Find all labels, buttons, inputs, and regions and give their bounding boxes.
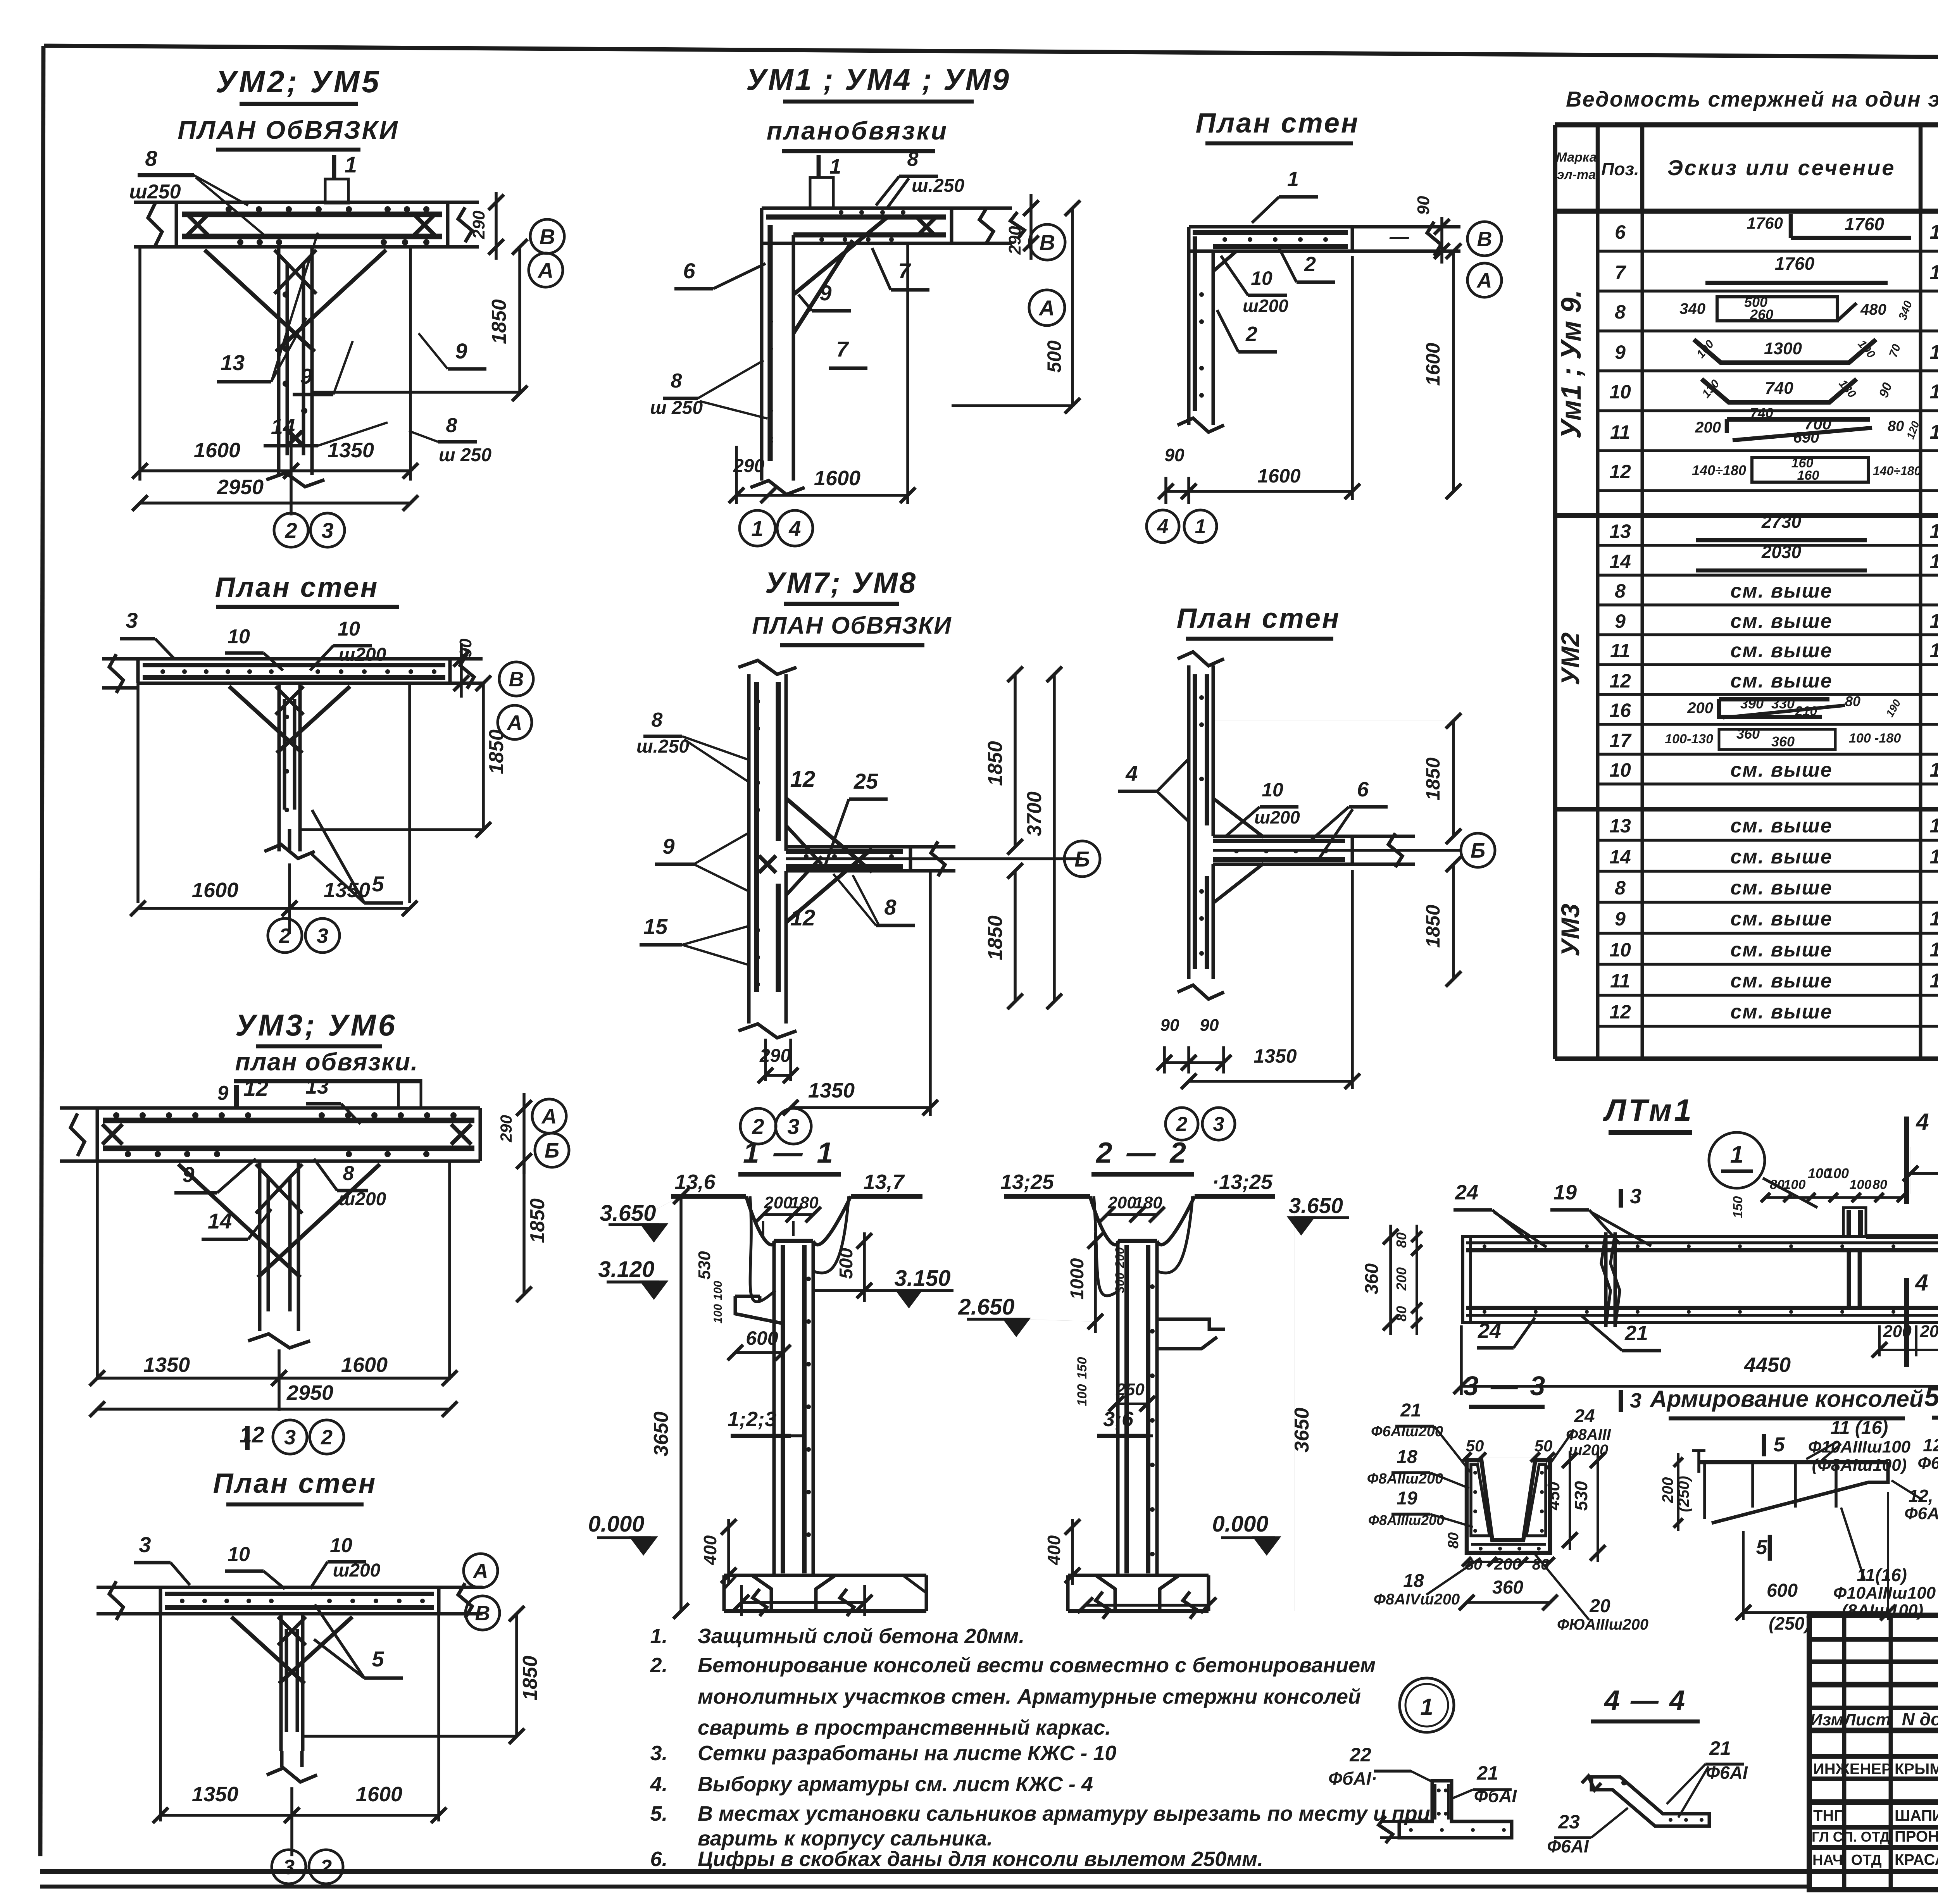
svg-text:200: 200 xyxy=(764,1193,793,1212)
svg-text:10: 10 xyxy=(1609,759,1631,781)
svg-text:21: 21 xyxy=(1476,1762,1498,1784)
svg-text:10: 10 xyxy=(1609,381,1631,403)
svg-text:В: В xyxy=(509,668,524,691)
svg-text:3700: 3700 xyxy=(1023,791,1046,836)
svg-text:200: 200 xyxy=(1659,1477,1676,1504)
svg-text:ш.250: ш.250 xyxy=(912,176,964,196)
svg-text:4: 4 xyxy=(1157,515,1169,538)
svg-text:1600: 1600 xyxy=(356,1783,402,1806)
svg-text:12: 12 xyxy=(240,1422,265,1447)
svg-text:12АIII: 12АIII xyxy=(1930,520,1938,543)
svg-text:план обвязки.: план обвязки. xyxy=(235,1048,418,1076)
svg-text:Ф8АIII: Ф8АIII xyxy=(1566,1426,1611,1443)
svg-text:10: 10 xyxy=(228,625,250,648)
svg-text:Сетки разработаны на листе: Сетки разработаны на листе КЖС - 10 xyxy=(698,1742,1116,1765)
svg-text:12АIII: 12АIII xyxy=(1930,908,1938,930)
svg-text:3.: 3. xyxy=(650,1742,667,1765)
svg-text:ПРОНИК: ПРОНИК xyxy=(1895,1828,1938,1845)
svg-text:100: 100 xyxy=(1850,1177,1872,1192)
svg-text:2: 2 xyxy=(321,1426,333,1449)
svg-text:360: 360 xyxy=(1492,1577,1523,1598)
svg-text:80: 80 xyxy=(1845,693,1860,709)
svg-text:100 -180: 100 -180 xyxy=(1849,731,1901,746)
svg-text:3650: 3650 xyxy=(1291,1408,1313,1453)
svg-text:4: 4 xyxy=(1915,1270,1928,1296)
svg-text:13,6: 13,6 xyxy=(674,1170,716,1194)
svg-text:10АIII: 10АIII xyxy=(1930,759,1938,781)
svg-text:12: 12 xyxy=(1609,461,1631,482)
svg-text:140÷180: 140÷180 xyxy=(1692,462,1746,478)
svg-text:УМ2: УМ2 xyxy=(1556,632,1585,686)
svg-text:90: 90 xyxy=(1160,1016,1179,1035)
svg-text:12 (17): 12 (17) xyxy=(1923,1435,1938,1455)
svg-text:ш200: ш200 xyxy=(1569,1442,1608,1459)
svg-text:1: 1 xyxy=(1287,167,1299,191)
svg-text:250: 250 xyxy=(1116,1380,1145,1399)
svg-text:УМ1 ; УМ4 ; УМ9: УМ1 ; УМ4 ; УМ9 xyxy=(746,62,1010,96)
svg-text:3: 3 xyxy=(284,1426,296,1449)
svg-text:см. выше: см. выше xyxy=(1730,877,1832,899)
svg-text:14: 14 xyxy=(208,1209,232,1233)
svg-text:600: 600 xyxy=(1767,1580,1798,1601)
svg-text:см. выше: см. выше xyxy=(1730,908,1832,930)
svg-text:2: 2 xyxy=(752,1114,764,1139)
svg-text:9: 9 xyxy=(819,281,831,305)
svg-text:см. выше: см. выше xyxy=(1730,939,1832,961)
svg-text:9: 9 xyxy=(662,834,674,858)
svg-text:9: 9 xyxy=(1615,341,1626,363)
svg-text:см. выше: см. выше xyxy=(1730,846,1832,868)
svg-text:480: 480 xyxy=(1860,301,1886,318)
svg-text:1760: 1760 xyxy=(1775,253,1815,274)
svg-text:10: 10 xyxy=(1262,779,1283,801)
svg-text:—: — xyxy=(1389,226,1409,248)
svg-text:80: 80 xyxy=(1888,418,1904,434)
svg-text:6: 6 xyxy=(683,258,695,283)
svg-text:18: 18 xyxy=(1397,1447,1417,1467)
svg-text:1: 1 xyxy=(751,516,763,541)
svg-text:планобвязки: планобвязки xyxy=(767,116,948,145)
svg-text:290: 290 xyxy=(469,210,488,240)
svg-text:18: 18 xyxy=(1403,1571,1424,1591)
svg-text:2: 2 xyxy=(284,518,297,543)
svg-text:10АIII: 10АIII xyxy=(1930,970,1938,992)
svg-text:А: А xyxy=(1038,296,1055,320)
svg-text:3: 3 xyxy=(321,518,333,543)
svg-text:ТНП: ТНП xyxy=(1813,1807,1845,1824)
svg-text:200: 200 xyxy=(1113,1247,1127,1268)
svg-text:12АIII: 12АIII xyxy=(1930,261,1938,284)
svg-text:690: 690 xyxy=(1793,429,1819,446)
svg-text:10: 10 xyxy=(228,1543,250,1566)
svg-text:90: 90 xyxy=(1414,196,1433,215)
svg-text:Ф8АIIш200: Ф8АIIш200 xyxy=(1367,1471,1443,1487)
svg-text:3.150: 3.150 xyxy=(894,1266,950,1291)
svg-text:13,7: 13,7 xyxy=(863,1170,905,1194)
svg-text:1850: 1850 xyxy=(519,1656,541,1701)
svg-text:3: 3 xyxy=(1213,1113,1224,1136)
svg-text:530: 530 xyxy=(1571,1481,1591,1511)
svg-text:см. выше: см. выше xyxy=(1730,970,1832,992)
svg-text:9: 9 xyxy=(455,339,467,363)
svg-text:Бетонирование консолей вести: Бетонирование консолей вести совместно с… xyxy=(698,1654,1376,1677)
svg-text:2.: 2. xyxy=(650,1654,667,1677)
svg-text:360: 360 xyxy=(1771,734,1795,750)
svg-text:12АIII: 12АIII xyxy=(1930,221,1938,243)
svg-text:100: 100 xyxy=(712,1281,724,1300)
svg-text:8: 8 xyxy=(652,709,663,731)
svg-text:Марка: Марка xyxy=(1556,150,1597,165)
svg-text:5: 5 xyxy=(372,1647,384,1671)
svg-text:12: 12 xyxy=(1609,670,1631,692)
svg-text:10: 10 xyxy=(330,1534,352,1557)
svg-text:3: 3 xyxy=(126,608,138,632)
svg-text:ш200: ш200 xyxy=(339,644,386,665)
svg-text:Ф6АIш 200: Ф6АIш 200 xyxy=(1904,1504,1938,1523)
svg-text:21: 21 xyxy=(1624,1322,1648,1345)
svg-text:9: 9 xyxy=(1615,908,1626,930)
svg-text:В: В xyxy=(540,224,555,249)
svg-text:·13;25: ·13;25 xyxy=(1212,1170,1273,1194)
svg-text:2: 2 xyxy=(279,924,291,948)
svg-text:Ф8АIVш200: Ф8АIVш200 xyxy=(1374,1591,1460,1608)
svg-text:1350: 1350 xyxy=(1253,1045,1297,1067)
svg-text:2030: 2030 xyxy=(1761,542,1802,562)
svg-text:2950: 2950 xyxy=(286,1381,333,1404)
svg-text:1: 1 xyxy=(1730,1141,1743,1168)
svg-text:4: 4 xyxy=(788,516,801,541)
svg-text:14: 14 xyxy=(1609,846,1631,868)
svg-text:8: 8 xyxy=(671,370,682,392)
svg-text:3: 3 xyxy=(139,1532,151,1557)
svg-text:90: 90 xyxy=(1200,1016,1219,1035)
svg-text:Ведомость стержней на один эле: Ведомость стержней на один элемент xyxy=(1566,87,1938,111)
svg-text:13: 13 xyxy=(305,1075,329,1098)
svg-text:5.: 5. xyxy=(650,1802,667,1825)
svg-text:1.: 1. xyxy=(650,1625,667,1648)
svg-text:12АIII: 12АIII xyxy=(1930,341,1938,364)
svg-text:10АIII: 10АIII xyxy=(1930,381,1938,403)
svg-text:100-130: 100-130 xyxy=(1665,732,1713,746)
svg-text:80: 80 xyxy=(1770,1177,1785,1192)
svg-text:9: 9 xyxy=(217,1082,229,1104)
svg-text:70: 70 xyxy=(1887,343,1904,359)
svg-text:23: 23 xyxy=(1558,1811,1580,1833)
svg-text:1: 1 xyxy=(829,155,841,178)
svg-text:10АIII: 10АIII xyxy=(1930,939,1938,961)
svg-text:монолитных участков стен. А: монолитных участков стен. Арматурные сте… xyxy=(698,1685,1361,1708)
svg-text:740: 740 xyxy=(1765,379,1793,398)
svg-text:В: В xyxy=(475,1602,490,1625)
svg-text:50: 50 xyxy=(1535,1437,1553,1455)
svg-text:1850: 1850 xyxy=(984,741,1007,786)
svg-text:1850: 1850 xyxy=(1422,905,1444,948)
svg-text:4 — 4: 4 — 4 xyxy=(1604,1685,1686,1716)
svg-text:13: 13 xyxy=(1609,520,1631,542)
svg-text:План стен: План стен xyxy=(1196,108,1360,139)
svg-text:см. выше: см. выше xyxy=(1730,580,1832,602)
svg-text:0.000: 0.000 xyxy=(588,1511,644,1537)
svg-text:5: 5 xyxy=(1774,1434,1785,1456)
svg-text:ИНЖЕНЕР: ИНЖЕНЕР xyxy=(1813,1761,1892,1778)
svg-text:В: В xyxy=(1477,227,1492,251)
svg-text:5: 5 xyxy=(1756,1536,1768,1559)
svg-text:А: А xyxy=(507,711,522,734)
svg-text:12АIII: 12АIII xyxy=(1930,550,1938,573)
svg-text:1600: 1600 xyxy=(192,879,238,902)
svg-text:ш200: ш200 xyxy=(1243,296,1288,316)
svg-text:8: 8 xyxy=(343,1162,354,1185)
svg-text:13;25: 13;25 xyxy=(1000,1170,1054,1194)
svg-text:500: 500 xyxy=(836,1248,857,1279)
svg-text:ПЛАН ОбВЯЗКИ: ПЛАН ОбВЯЗКИ xyxy=(752,612,952,639)
svg-text:ш 250: ш 250 xyxy=(439,445,491,465)
svg-text:сварить в пространственный: сварить в пространственный каркас. xyxy=(698,1716,1111,1739)
svg-text:9: 9 xyxy=(300,364,312,388)
svg-text:360: 360 xyxy=(1736,726,1760,742)
svg-text:80: 80 xyxy=(1393,1306,1409,1322)
svg-text:1350: 1350 xyxy=(328,439,374,462)
svg-text:Ф10АIIIш100: Ф10АIIIш100 xyxy=(1833,1584,1936,1602)
svg-text:80: 80 xyxy=(1872,1177,1887,1192)
svg-text:21: 21 xyxy=(1400,1400,1421,1421)
svg-text:0.000: 0.000 xyxy=(1212,1511,1268,1537)
svg-text:УМ2; УМ5: УМ2; УМ5 xyxy=(216,64,381,99)
svg-text:ПЛАН ОбВЯЗКИ: ПЛАН ОбВЯЗКИ xyxy=(178,115,399,144)
svg-text:1600: 1600 xyxy=(194,439,240,462)
svg-text:340: 340 xyxy=(1896,299,1915,322)
svg-text:2: 2 xyxy=(1245,322,1257,346)
svg-text:80: 80 xyxy=(1445,1532,1462,1549)
svg-text:План стен: План стен xyxy=(213,1468,377,1499)
svg-text:11 (16): 11 (16) xyxy=(1831,1418,1888,1438)
svg-text:8: 8 xyxy=(1615,877,1626,899)
svg-text:22: 22 xyxy=(1349,1744,1371,1766)
svg-text:N докум.: N докум. xyxy=(1902,1709,1938,1729)
svg-text:Изм: Изм xyxy=(1810,1710,1843,1729)
svg-text:100: 100 xyxy=(1075,1384,1090,1406)
svg-text:200: 200 xyxy=(1695,419,1721,436)
svg-text:12: 12 xyxy=(1609,1001,1631,1023)
svg-text:390: 390 xyxy=(1740,696,1764,712)
svg-text:Цифры в скобках даны для кон: Цифры в скобках даны для консоли вылетом… xyxy=(698,1847,1263,1871)
svg-text:Поз.: Поз. xyxy=(1601,159,1639,179)
svg-text:2.650: 2.650 xyxy=(958,1294,1014,1320)
svg-text:1600: 1600 xyxy=(1257,465,1300,487)
svg-text:3: 3 xyxy=(283,1856,295,1879)
svg-text:2: 2 xyxy=(1176,1113,1188,1136)
svg-text:1850: 1850 xyxy=(485,729,508,774)
svg-text:21: 21 xyxy=(1709,1737,1731,1759)
svg-text:9: 9 xyxy=(1615,610,1626,632)
svg-text:180: 180 xyxy=(1134,1193,1162,1212)
svg-text:3;6: 3;6 xyxy=(1103,1408,1134,1431)
svg-text:Армирование консолей: Армирование консолей xyxy=(1649,1386,1923,1412)
svg-text:Выборку арматуры см. лист: Выборку арматуры см. лист КЖС - 4 xyxy=(698,1773,1093,1796)
svg-text:НАЧ. ОТД: НАЧ. ОТД xyxy=(1812,1852,1882,1868)
svg-text:1000: 1000 xyxy=(1067,1258,1088,1299)
svg-text:12, (17): 12, (17) xyxy=(1909,1486,1938,1506)
svg-text:3 — 3: 3 — 3 xyxy=(1464,1371,1548,1401)
svg-text:4450: 4450 xyxy=(1744,1353,1791,1377)
svg-text:8: 8 xyxy=(1615,301,1626,323)
svg-text:Ф6АIш200: Ф6АIш200 xyxy=(1371,1423,1443,1440)
svg-text:8: 8 xyxy=(884,895,897,919)
svg-text:290: 290 xyxy=(497,1115,515,1142)
svg-text:10: 10 xyxy=(338,618,360,640)
svg-text:10АIII: 10АIII xyxy=(1930,421,1938,443)
svg-text:1850: 1850 xyxy=(984,915,1007,960)
svg-text:Защитный слой бетона 20мм.: Защитный слой бетона 20мм. xyxy=(698,1625,1024,1648)
svg-text:13: 13 xyxy=(1609,815,1631,837)
svg-text:1 — 1: 1 — 1 xyxy=(743,1136,836,1169)
svg-text:1600: 1600 xyxy=(341,1353,388,1377)
svg-text:ФЮАIIIш200: ФЮАIIIш200 xyxy=(1557,1616,1648,1633)
svg-text:см. выше: см. выше xyxy=(1730,815,1832,837)
svg-text:Б: Б xyxy=(545,1139,559,1162)
svg-text:ш200: ш200 xyxy=(333,1560,381,1581)
svg-text:12: 12 xyxy=(790,767,816,792)
svg-text:УМ7; УМ8: УМ7; УМ8 xyxy=(765,567,917,600)
svg-text:В: В xyxy=(1040,230,1055,255)
svg-text:200: 200 xyxy=(1393,1267,1409,1291)
svg-text:см. выше: см. выше xyxy=(1730,639,1832,662)
svg-text:Ум1 ; Ум 9.: Ум1 ; Ум 9. xyxy=(1556,290,1587,439)
svg-text:План стен: План стен xyxy=(215,572,379,603)
svg-text:200: 200 xyxy=(1107,1193,1136,1212)
svg-text:3: 3 xyxy=(1630,1185,1641,1208)
svg-text:В местах установки сальников: В местах установки сальников арматуру вы… xyxy=(698,1802,1437,1825)
svg-text:варить к корпусу сальника.: варить к корпусу сальника. xyxy=(698,1827,993,1850)
svg-text:5 — 5: 5 — 5 xyxy=(1924,1382,1938,1412)
svg-text:11(16): 11(16) xyxy=(1857,1565,1907,1585)
svg-text:3: 3 xyxy=(317,924,328,948)
svg-text:Лист: Лист xyxy=(1843,1710,1891,1729)
svg-text:150: 150 xyxy=(1731,1196,1745,1218)
svg-text:530: 530 xyxy=(695,1251,714,1280)
svg-text:7: 7 xyxy=(1615,262,1626,283)
svg-text:ШАПИРО: ШАПИРО xyxy=(1895,1807,1938,1824)
svg-text:1850: 1850 xyxy=(1422,757,1444,800)
svg-text:200: 200 xyxy=(1919,1322,1938,1341)
svg-text:эл-та: эл-та xyxy=(1557,167,1596,182)
svg-text:Эскиз или сечение: Эскиз или сечение xyxy=(1667,155,1896,180)
svg-text:3650: 3650 xyxy=(650,1411,672,1456)
svg-text:3: 3 xyxy=(787,1114,799,1139)
svg-text:9: 9 xyxy=(182,1162,194,1187)
svg-text:24: 24 xyxy=(1478,1319,1501,1342)
svg-text:см. выше: см. выше xyxy=(1730,1001,1832,1023)
svg-text:260: 260 xyxy=(1750,307,1773,322)
svg-text:1: 1 xyxy=(1195,515,1206,538)
svg-text:140÷180: 140÷180 xyxy=(1873,464,1921,478)
svg-text:4.: 4. xyxy=(650,1773,667,1796)
svg-text:2: 2 xyxy=(320,1856,332,1879)
svg-text:360: 360 xyxy=(1362,1263,1382,1294)
svg-text:8: 8 xyxy=(907,148,919,171)
svg-text:20: 20 xyxy=(1589,1596,1610,1616)
svg-text:740: 740 xyxy=(1750,405,1773,421)
svg-text:8: 8 xyxy=(446,414,457,437)
svg-text:Ф8АIIIш200: Ф8АIIIш200 xyxy=(1368,1512,1444,1528)
svg-text:6: 6 xyxy=(1615,221,1626,243)
svg-text:см. выше: см. выше xyxy=(1730,610,1832,632)
svg-text:ш200: ш200 xyxy=(339,1189,386,1210)
svg-text:5: 5 xyxy=(372,872,384,896)
svg-text:14: 14 xyxy=(1609,551,1631,572)
svg-text:10: 10 xyxy=(1251,267,1272,289)
svg-text:2730: 2730 xyxy=(1761,512,1802,532)
svg-text:1350: 1350 xyxy=(324,879,370,902)
svg-text:24: 24 xyxy=(1574,1406,1595,1427)
svg-text:План стен: План стен xyxy=(1177,603,1341,634)
svg-text:600: 600 xyxy=(746,1327,778,1349)
svg-text:4: 4 xyxy=(1125,761,1138,786)
svg-text:160: 160 xyxy=(1797,468,1819,483)
svg-text:1;2;3: 1;2;3 xyxy=(728,1408,776,1431)
svg-text:90: 90 xyxy=(1164,445,1185,465)
svg-text:10АIII: 10АIII xyxy=(1930,639,1938,662)
svg-text:190: 190 xyxy=(1884,697,1903,719)
svg-text:2950: 2950 xyxy=(217,476,264,499)
svg-text:200: 200 xyxy=(1494,1555,1521,1573)
svg-text:13: 13 xyxy=(221,350,245,375)
svg-text:500: 500 xyxy=(1043,340,1065,373)
svg-text:400: 400 xyxy=(700,1535,720,1565)
svg-text:6: 6 xyxy=(1357,778,1369,801)
svg-text:1350: 1350 xyxy=(192,1783,238,1806)
svg-text:1850: 1850 xyxy=(488,299,510,344)
svg-text:6.: 6. xyxy=(650,1847,667,1871)
svg-text:ГЛ СП. ОТД: ГЛ СП. ОТД xyxy=(1812,1829,1890,1845)
svg-text:Ф6АIш200: Ф6АIш200 xyxy=(1917,1454,1938,1473)
svg-text:12АIII: 12АIII xyxy=(1930,846,1938,868)
svg-text:400: 400 xyxy=(1044,1535,1064,1565)
svg-text:А: А xyxy=(472,1559,488,1583)
svg-text:19: 19 xyxy=(1397,1488,1417,1509)
svg-text:1: 1 xyxy=(1420,1694,1433,1720)
svg-text:(Ф8АIш100): (Ф8АIш100) xyxy=(1812,1456,1907,1475)
svg-text:16: 16 xyxy=(1609,700,1631,721)
svg-text:100: 100 xyxy=(712,1304,724,1323)
svg-text:1850: 1850 xyxy=(526,1198,549,1243)
svg-text:Ф6АІ: Ф6АІ xyxy=(1706,1763,1748,1783)
svg-text:25: 25 xyxy=(853,769,878,793)
svg-text:450: 450 xyxy=(1544,1482,1563,1511)
svg-text:А: А xyxy=(537,258,553,283)
svg-text:80: 80 xyxy=(1393,1232,1409,1248)
svg-text:см. выше: см. выше xyxy=(1730,670,1832,692)
svg-text:100: 100 xyxy=(1826,1165,1849,1181)
svg-text:150: 150 xyxy=(1075,1357,1090,1379)
svg-text:Ф6АІ: Ф6АІ xyxy=(1547,1836,1589,1856)
svg-text:3.650: 3.650 xyxy=(600,1201,656,1226)
svg-text:15: 15 xyxy=(643,914,668,939)
svg-text:180: 180 xyxy=(790,1193,819,1212)
svg-text:11: 11 xyxy=(1610,640,1630,662)
svg-text:12АIII: 12АIII xyxy=(1930,815,1938,837)
svg-text:11: 11 xyxy=(1610,970,1630,992)
svg-text:12: 12 xyxy=(790,905,816,930)
svg-text:3: 3 xyxy=(1630,1389,1641,1412)
svg-text:1: 1 xyxy=(345,152,357,177)
svg-text:7: 7 xyxy=(836,337,849,361)
svg-text:1760: 1760 xyxy=(1747,214,1783,232)
svg-text:1760: 1760 xyxy=(1845,214,1885,234)
svg-text:1600: 1600 xyxy=(1422,343,1444,386)
svg-text:КРЫМСКИН: КРЫМСКИН xyxy=(1895,1761,1938,1778)
svg-text:ш200: ш200 xyxy=(1254,807,1300,827)
